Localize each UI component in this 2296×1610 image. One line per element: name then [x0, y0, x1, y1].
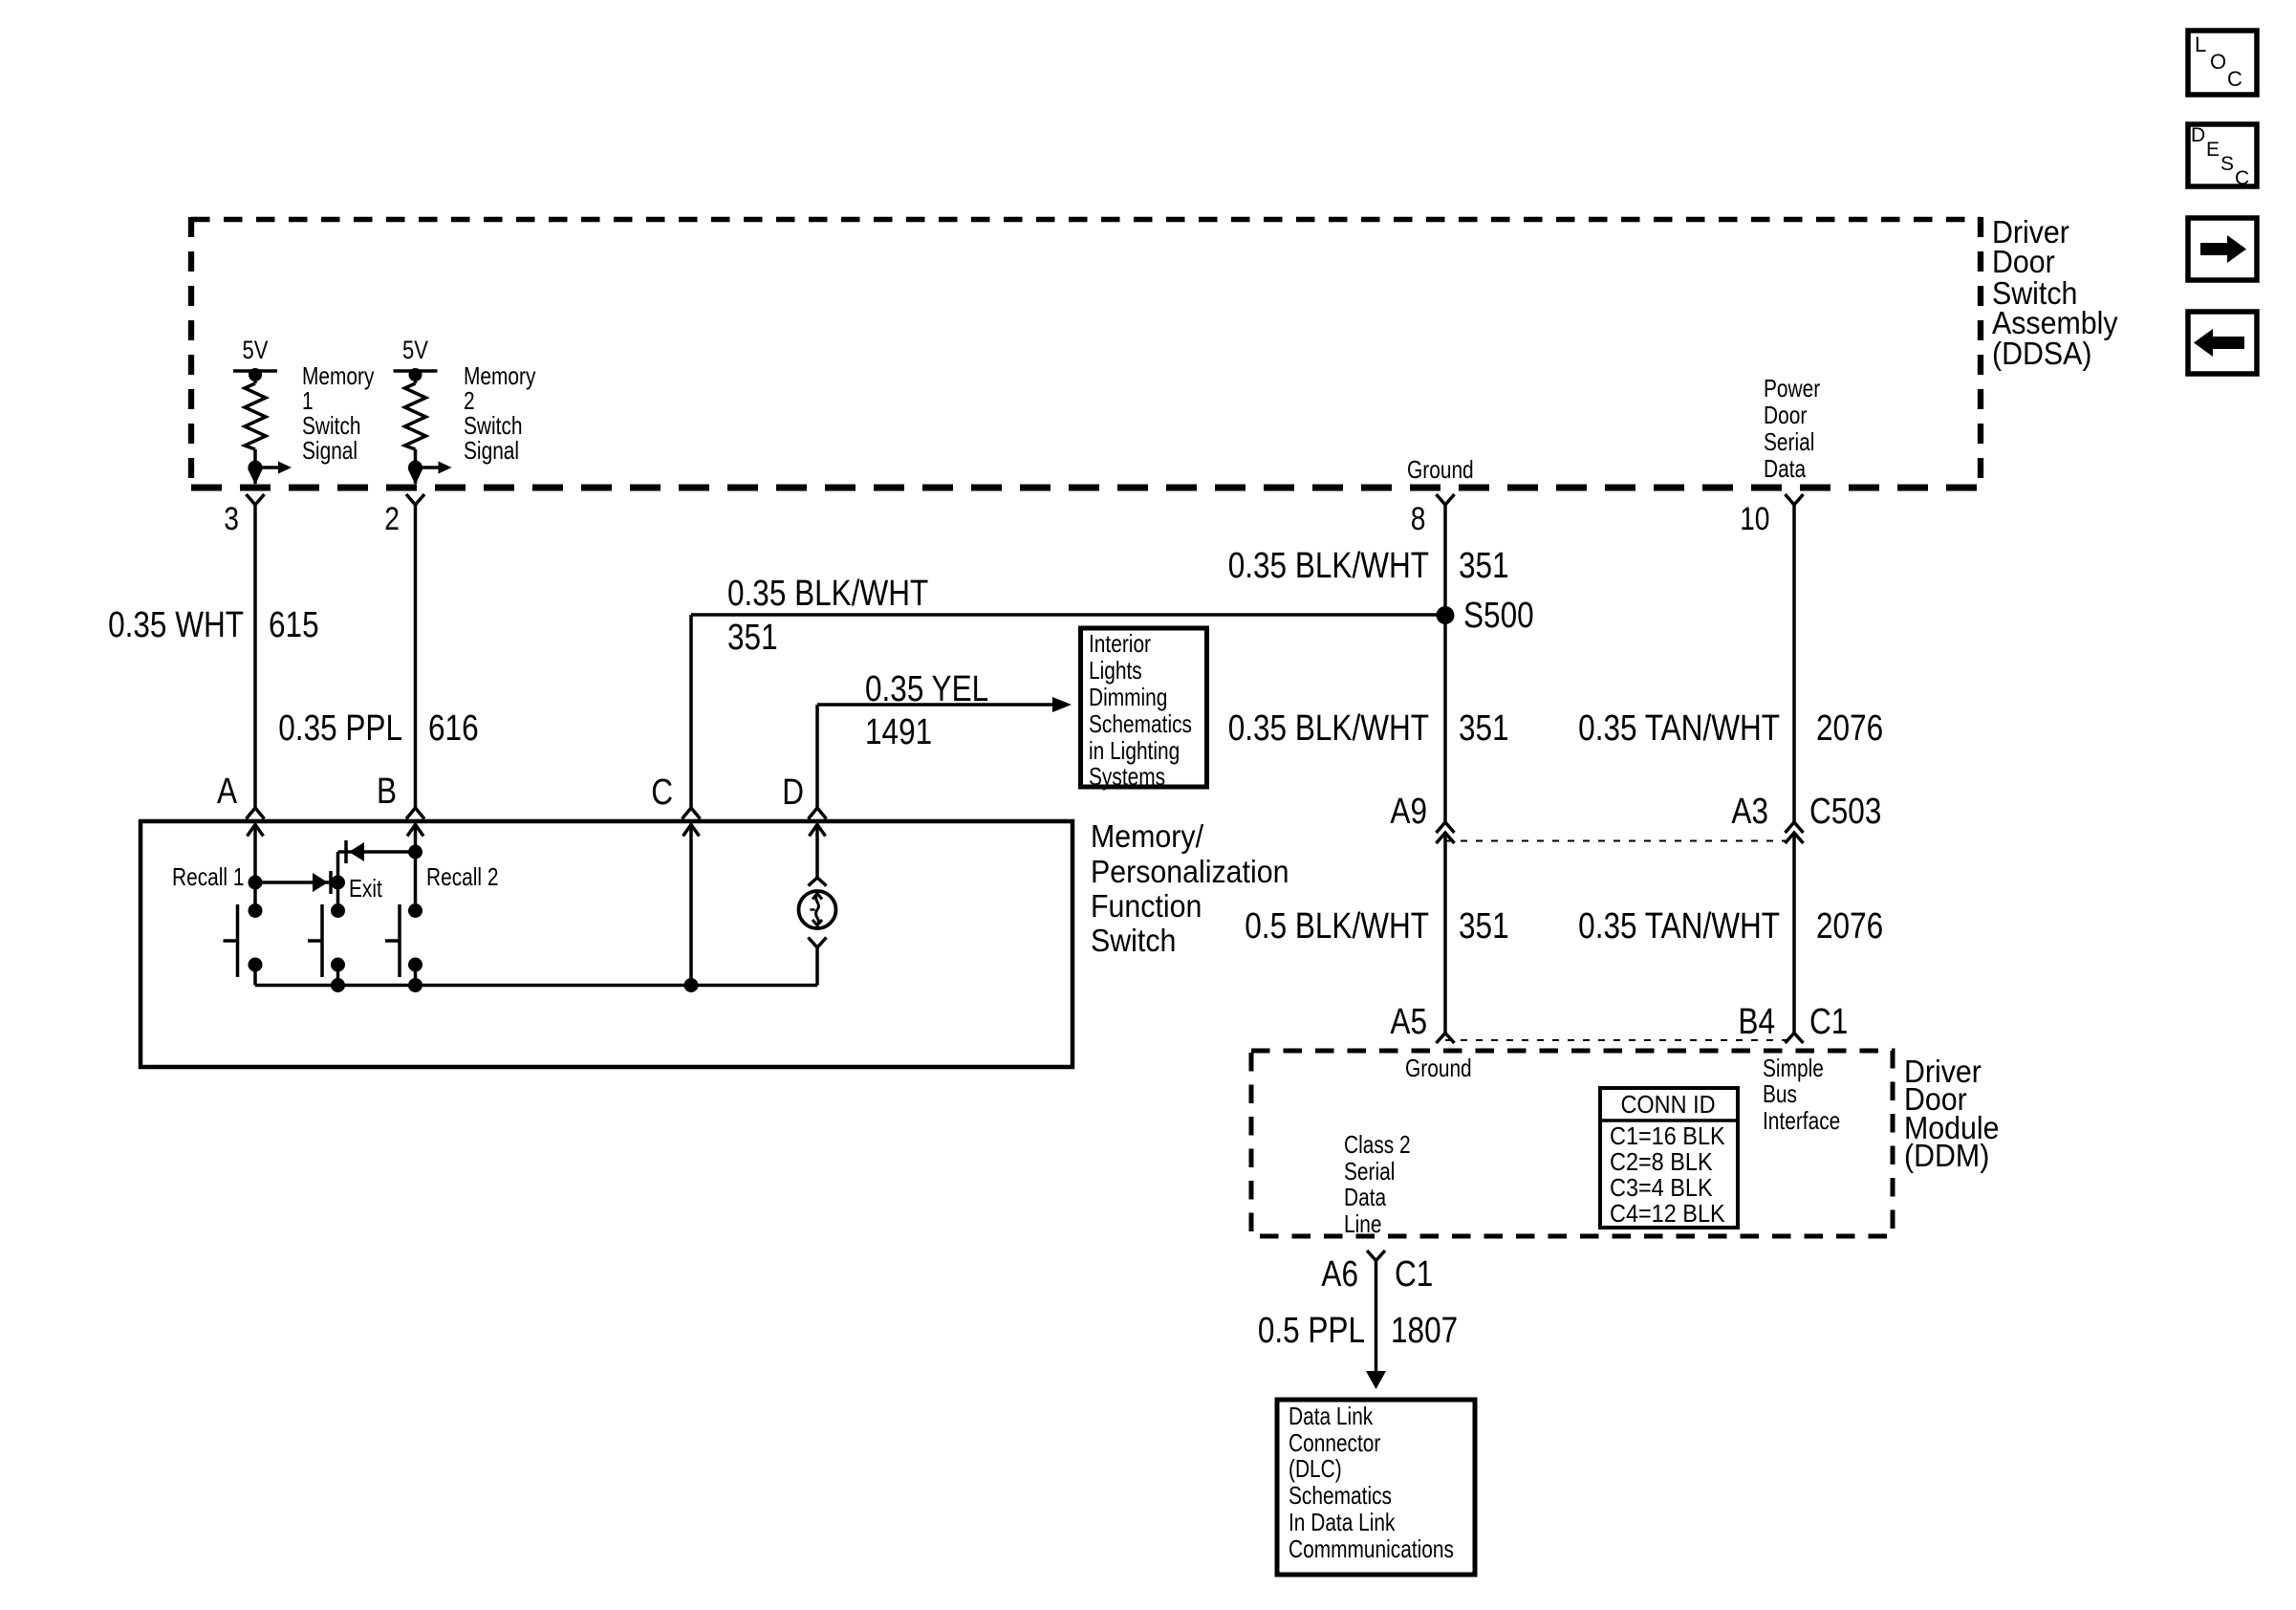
svg-text:5V: 5V: [243, 337, 270, 364]
svg-text:2076: 2076: [1816, 707, 1883, 748]
svg-text:In Data Link: In Data Link: [1289, 1509, 1396, 1535]
svg-text:Bus: Bus: [1763, 1080, 1797, 1107]
svg-text:Systems: Systems: [1089, 763, 1165, 790]
svg-text:Serial: Serial: [1764, 428, 1814, 455]
svg-text:Ground: Ground: [1405, 1055, 1472, 1081]
svg-text:Data: Data: [1344, 1184, 1386, 1210]
svg-text:Switch: Switch: [1091, 923, 1176, 958]
svg-text:Simple: Simple: [1763, 1055, 1824, 1081]
svg-text:616: 616: [428, 707, 479, 748]
svg-text:351: 351: [727, 617, 778, 657]
svg-text:Lights: Lights: [1089, 657, 1142, 684]
svg-text:2: 2: [464, 387, 475, 414]
svg-text:1491: 1491: [865, 711, 932, 751]
svg-text:0.35 BLK/WHT: 0.35 BLK/WHT: [1228, 707, 1429, 748]
svg-text:Schematics: Schematics: [1089, 710, 1192, 737]
svg-text:B4: B4: [1738, 1001, 1775, 1041]
svg-text:0.5 BLK/WHT: 0.5 BLK/WHT: [1245, 905, 1429, 946]
svg-text:L: L: [2195, 33, 2206, 56]
svg-text:S: S: [2220, 153, 2234, 175]
svg-text:Data: Data: [1764, 455, 1806, 482]
svg-text:Interior: Interior: [1089, 630, 1151, 657]
svg-text:Dimming: Dimming: [1089, 684, 1167, 710]
svg-text:Connector: Connector: [1289, 1429, 1381, 1456]
svg-text:A5: A5: [1390, 1001, 1427, 1041]
svg-text:0.35 TAN/WHT: 0.35 TAN/WHT: [1578, 905, 1780, 946]
svg-text:0.35 WHT: 0.35 WHT: [108, 604, 244, 644]
svg-text:B: B: [377, 771, 397, 811]
svg-text:1: 1: [302, 387, 314, 414]
svg-text:C: C: [2235, 167, 2249, 189]
svg-text:C1: C1: [1395, 1253, 1433, 1294]
svg-text:Door: Door: [1764, 402, 1807, 428]
svg-text:A9: A9: [1390, 791, 1427, 831]
svg-text:Serial: Serial: [1344, 1158, 1395, 1185]
svg-text:(DDM): (DDM): [1904, 1138, 1989, 1173]
svg-text:Exit: Exit: [349, 875, 382, 902]
svg-text:351: 351: [1459, 545, 1509, 585]
svg-text:3: 3: [224, 501, 239, 537]
svg-text:Schematics: Schematics: [1289, 1482, 1392, 1509]
svg-text:5V: 5V: [402, 337, 429, 364]
svg-text:Interface: Interface: [1763, 1107, 1840, 1134]
svg-text:C1: C1: [1809, 1001, 1848, 1041]
svg-text:(DLC): (DLC): [1289, 1455, 1342, 1482]
svg-text:Function: Function: [1091, 888, 1202, 924]
svg-text:in Lighting: in Lighting: [1089, 737, 1180, 764]
svg-text:Memory: Memory: [464, 362, 536, 389]
svg-text:351: 351: [1459, 707, 1509, 748]
svg-text:C: C: [651, 772, 673, 812]
svg-text:Memory: Memory: [302, 362, 375, 389]
svg-text:Recall 1: Recall 1: [172, 863, 244, 890]
svg-text:Switch: Switch: [302, 412, 361, 439]
svg-text:D: D: [2191, 124, 2205, 146]
svg-text:A6: A6: [1321, 1253, 1358, 1294]
svg-text:0.5 PPL: 0.5 PPL: [1258, 1310, 1365, 1350]
svg-text:CONN ID: CONN ID: [1620, 1092, 1715, 1119]
svg-text:0.35 YEL: 0.35 YEL: [865, 668, 988, 708]
svg-text:Ground: Ground: [1407, 456, 1474, 483]
svg-text:Switch: Switch: [464, 412, 523, 439]
svg-text:Class 2: Class 2: [1344, 1131, 1411, 1158]
svg-text:0.35 TAN/WHT: 0.35 TAN/WHT: [1578, 707, 1780, 748]
svg-text:A: A: [217, 771, 238, 811]
svg-text:Commmunications: Commmunications: [1289, 1535, 1454, 1562]
svg-text:Line: Line: [1344, 1210, 1381, 1237]
svg-text:Personalization: Personalization: [1091, 854, 1289, 889]
svg-text:Power: Power: [1764, 375, 1820, 402]
svg-text:8: 8: [1411, 501, 1426, 537]
svg-text:0.35 PPL: 0.35 PPL: [278, 707, 402, 748]
svg-text:D: D: [782, 772, 804, 812]
svg-text:S500: S500: [1463, 595, 1534, 635]
svg-text:351: 351: [1459, 905, 1509, 946]
svg-text:E: E: [2206, 139, 2220, 161]
svg-text:Recall 2: Recall 2: [426, 863, 498, 890]
svg-text:Memory/: Memory/: [1091, 818, 1203, 854]
svg-text:Door: Door: [1992, 244, 2055, 279]
svg-text:2076: 2076: [1816, 905, 1883, 946]
svg-text:Data Link: Data Link: [1289, 1403, 1374, 1429]
svg-text:2: 2: [384, 501, 400, 537]
svg-text:C1=16 BLK: C1=16 BLK: [1610, 1123, 1725, 1150]
svg-text:0.35 BLK/WHT: 0.35 BLK/WHT: [1228, 545, 1429, 585]
svg-text:Signal: Signal: [464, 437, 519, 464]
svg-text:Signal: Signal: [302, 437, 357, 464]
svg-text:C: C: [2227, 67, 2242, 91]
svg-text:C2=8 BLK: C2=8 BLK: [1610, 1149, 1713, 1176]
svg-text:10: 10: [1740, 501, 1769, 537]
svg-text:615: 615: [269, 604, 319, 644]
svg-text:C4=12 BLK: C4=12 BLK: [1610, 1201, 1725, 1228]
svg-text:C3=4 BLK: C3=4 BLK: [1610, 1175, 1713, 1202]
svg-text:(DDSA): (DDSA): [1992, 336, 2092, 371]
svg-text:0.35 BLK/WHT: 0.35 BLK/WHT: [727, 573, 928, 613]
svg-text:A3: A3: [1731, 791, 1768, 831]
svg-text:O: O: [2210, 50, 2226, 74]
svg-text:C503: C503: [1809, 791, 1881, 831]
svg-text:1807: 1807: [1391, 1310, 1458, 1350]
